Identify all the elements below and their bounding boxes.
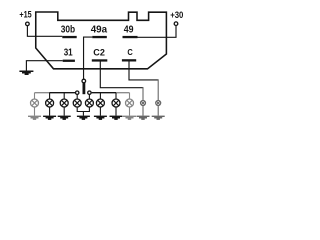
svg-text:C: C [127,48,132,57]
svg-text:+15: +15 [19,10,31,20]
svg-text:C2: C2 [93,46,105,57]
svg-text:49a: 49a [91,25,108,36]
svg-text:30b: 30b [61,25,75,36]
svg-text:49: 49 [124,25,134,36]
svg-text:+30: +30 [170,10,183,20]
svg-text:31: 31 [64,47,74,58]
